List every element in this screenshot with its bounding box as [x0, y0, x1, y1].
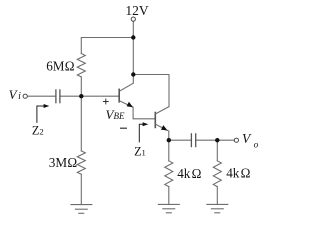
capacitor C2 output	[191, 133, 195, 147]
ground: below 3M	[70, 205, 92, 214]
terminal: Vi input	[23, 94, 27, 98]
resistor R2 3M zigzag	[77, 151, 85, 174]
capacitor C1 input	[56, 89, 60, 103]
resistor R3 4k zigzag	[165, 161, 173, 187]
wire: top rail junction to 6M resistor top	[81, 38, 133, 54]
wire: output capacitor to Vo terminal	[196, 139, 235, 141]
wire: Q2 emitter corner down to output node	[168, 131, 170, 140]
svg-text:4kΩ: 4kΩ	[226, 165, 250, 180]
wire: collector rail junction right and down to Q2 collector	[133, 75, 169, 107]
impedance arrow Z2	[37, 104, 49, 123]
plus sign at Q1 base	[103, 99, 109, 105]
wire: R3 bottom to ground	[168, 187, 170, 205]
wire: output node down to 4k resistor R3	[168, 140, 170, 161]
svg-text:Vi: Vi	[9, 87, 22, 102]
resistor R1 6M zigzag	[77, 54, 85, 77]
junction dot: emitter output node	[167, 138, 171, 142]
wire: Vo node down to 4k resistor R4	[216, 140, 218, 161]
minus sign below VBE	[120, 127, 127, 129]
svg-text:6MΩ: 6MΩ	[46, 59, 75, 74]
svg-text:4kΩ: 4kΩ	[177, 166, 201, 181]
svg-text:12V: 12V	[125, 3, 148, 18]
svg-text:Z1: Z1	[134, 144, 146, 158]
wire: 12V terminal down through junctions to Q1 collector	[132, 21, 134, 83]
svg-text:VBE: VBE	[106, 107, 125, 122]
wire: Q1 emitter down and over to Q2 base	[133, 107, 155, 119]
junction dot: collector rail	[131, 72, 135, 76]
junction dot: base node	[79, 94, 83, 98]
ground: below R3	[158, 204, 180, 212]
terminal: Vo output	[234, 138, 238, 142]
svg-text:3MΩ: 3MΩ	[49, 155, 78, 170]
svg-text:Vo: Vo	[242, 131, 259, 150]
ground: below R4	[206, 204, 228, 212]
impedance arrow Z1	[139, 122, 148, 142]
svg-text:Z2: Z2	[32, 123, 44, 137]
transistor Q2	[155, 107, 169, 132]
junction dot: top rail	[131, 35, 135, 39]
wire: input capacitor to Q1 base	[60, 95, 119, 97]
wire: R4 bottom to ground	[216, 187, 218, 205]
wire: 3M bottom to ground	[80, 174, 82, 204]
wire: Vi terminal to input capacitor	[27, 95, 56, 97]
resistor R4 4k zigzag	[213, 161, 221, 187]
junction dot: Vo node	[215, 138, 219, 142]
terminal: 12V supply	[131, 17, 135, 21]
wire: output node to output capacitor	[169, 139, 192, 141]
transistor Q1	[119, 83, 133, 107]
wire: 6M bottom to base node to 3M top	[80, 77, 82, 151]
